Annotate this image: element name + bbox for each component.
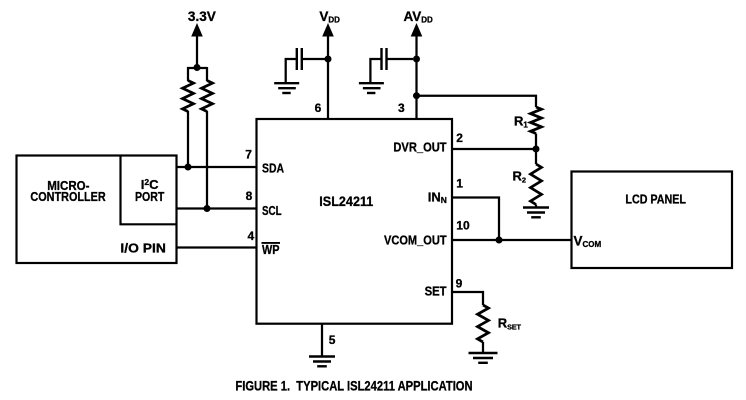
wire VDD cap to rail [302, 58, 325, 60]
svg-text:R1: R1 [514, 114, 528, 130]
wire SET [452, 292, 483, 305]
wire AVDD cap to ground [370, 59, 381, 82]
wire IN_N [452, 198, 499, 241]
svg-text:4: 4 [248, 229, 255, 243]
svg-text:R2: R2 [513, 168, 527, 184]
wire SCL [177, 207, 257, 209]
ground AVDD cap [359, 83, 384, 93]
svg-text:PORT: PORT [135, 189, 164, 204]
wire stub right pull-up [206, 67, 208, 81]
capacitor VDD bypass [297, 48, 302, 70]
LCD panel box [572, 172, 733, 269]
node VCOM junction [496, 237, 503, 244]
svg-text:AVDD: AVDD [404, 9, 434, 25]
svg-text:7: 7 [245, 148, 252, 162]
wire split bar to pull-up resistors [187, 67, 207, 69]
svg-text:6: 6 [315, 101, 322, 115]
svg-text:SDA: SDA [262, 160, 284, 175]
supply AVDD arrow [411, 23, 423, 119]
resistor R2 [531, 164, 542, 205]
ground VDD cap [274, 83, 299, 93]
wire WP [177, 246, 257, 248]
capacitor AVDD bypass [382, 48, 387, 70]
IC U1 ISL24211 [257, 119, 453, 324]
svg-text:2: 2 [456, 131, 463, 145]
pin name WP with overline [262, 242, 281, 257]
wire R2 to ground [535, 205, 537, 207]
svg-text:3: 3 [398, 101, 405, 115]
svg-text:DVR_OUT: DVR_OUT [393, 140, 446, 155]
resistor R1 [531, 107, 542, 134]
svg-text:ISL24211: ISL24211 [319, 193, 373, 209]
wire RSET to ground [482, 342, 484, 352]
node SDA junction [185, 164, 192, 171]
micro-controller box [17, 156, 177, 264]
wire stub left pull-up [187, 67, 189, 81]
supply 3.3V arrow [191, 23, 203, 68]
wire pin 5 to ground [321, 324, 323, 356]
node AVDD junction [413, 56, 420, 63]
ground RSET [469, 353, 498, 363]
svg-text:1: 1 [456, 177, 463, 191]
resistor pull-up SDA [183, 81, 194, 112]
node 3.3V junction [194, 64, 201, 71]
wire VCOM_OUT [452, 239, 572, 241]
ground pin 5 [309, 357, 335, 367]
svg-text:VCOM_OUT: VCOM_OUT [384, 232, 447, 247]
svg-text:RSET: RSET [498, 316, 522, 332]
wire SDA [177, 166, 257, 168]
resistor pull-up SCL [202, 81, 213, 112]
node DVR_OUT junction [533, 146, 540, 153]
supply VDD arrow [322, 23, 334, 119]
svg-text:VDD: VDD [319, 9, 340, 25]
node SCL junction [204, 205, 211, 212]
wire AVDD node to R1 [417, 96, 537, 107]
I2C port sub-box [121, 156, 177, 225]
wire AVDD cap to rail [387, 58, 414, 60]
ground R2 [523, 208, 549, 218]
wire node to R2 [535, 149, 537, 164]
svg-text:INN: INN [428, 190, 447, 206]
svg-text:SET: SET [425, 283, 447, 298]
svg-text:8: 8 [246, 189, 253, 203]
svg-text:9: 9 [456, 277, 463, 291]
svg-text:10: 10 [456, 219, 470, 233]
wire R1 to node [535, 134, 537, 150]
wire DVR_OUT [452, 148, 536, 150]
resistor RSET [478, 305, 489, 342]
svg-text:FIGURE 1. TYPICAL ISL24211 AP: FIGURE 1. TYPICAL ISL24211 APPLICATION [235, 379, 472, 394]
node VDD junction [325, 56, 332, 63]
svg-text:LCD PANEL: LCD PANEL [625, 192, 686, 207]
wire VDD cap to ground [286, 59, 297, 82]
svg-text:VCOM: VCOM [574, 233, 602, 249]
node AVDD to R1 junction [413, 92, 420, 99]
svg-text:I/O PIN: I/O PIN [120, 240, 166, 255]
svg-text:CONTROLLER: CONTROLLER [30, 189, 106, 204]
wire pull-up SCL to SCL line [206, 111, 208, 209]
svg-text:3.3V: 3.3V [188, 9, 216, 24]
svg-text:5: 5 [329, 333, 336, 347]
svg-text:WP: WP [262, 242, 280, 257]
svg-text:SCL: SCL [262, 203, 282, 218]
wire pull-up SDA to SDA line [187, 111, 189, 167]
